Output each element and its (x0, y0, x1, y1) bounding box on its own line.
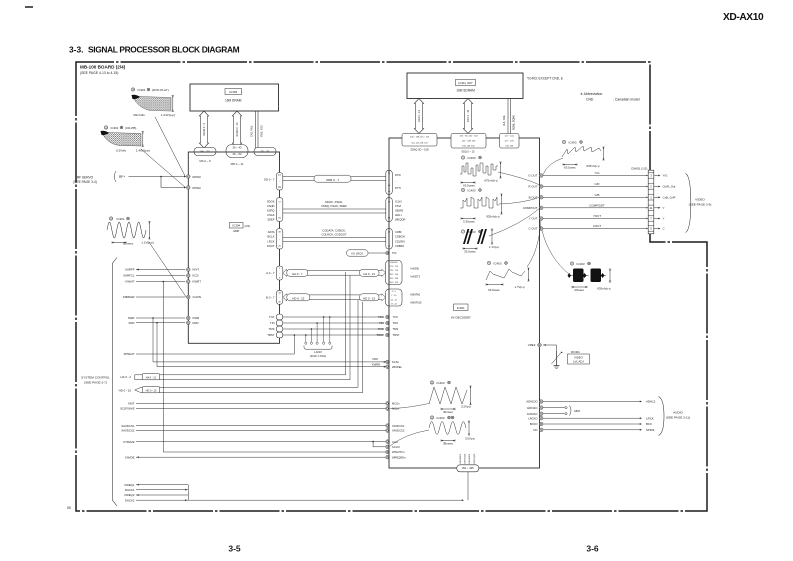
node XAVDCS2 av decoder (386, 429, 390, 433)
wire XARFF to KINT (136, 269, 185, 271)
svg-text:AUDIO: AUDIO (673, 411, 683, 415)
svg-text:XAVDE: XAVDE (125, 455, 135, 459)
svg-text:TRST: TRST (376, 333, 383, 337)
svg-text:IC303: IC303 (229, 90, 237, 94)
svg-text:B OUT: B OUT (529, 196, 538, 200)
svg-text:66 ~ 74: 66 ~ 74 (200, 149, 210, 153)
wire XARFC1 to KCS (136, 275, 185, 277)
svg-text:SDOK: SDOK (267, 199, 275, 203)
svg-text:XSHD: XSHD (267, 204, 275, 208)
svg-text:3-6: 3-6 (586, 544, 599, 554)
svg-text:CAS, RAS,: CAS, RAS, (251, 125, 254, 137)
svg-text:VIDEO: VIDEO (695, 198, 705, 202)
bus arrow RAMA 0-9 (199, 111, 208, 148)
svg-text:ASD 0 - 15: ASD 0 - 15 (467, 109, 470, 122)
svg-text:HD 0 - 15: HD 0 - 15 (292, 296, 304, 300)
svg-text:ADK34O: ADK34O (527, 406, 538, 410)
svg-text:XAVDCS2: XAVDCS2 (392, 429, 405, 433)
svg-text:HA 0 - 21: HA 0 - 21 (363, 272, 375, 276)
svg-text:KRD: KRD (193, 321, 199, 325)
svg-text:DQML, DQMU: DQML, DQMU (514, 115, 516, 130)
wire XTRAVE to CLKI (136, 441, 385, 443)
connector HD pin numbers av decoder (386, 289, 403, 306)
svg-text:SDEF: SDEF (267, 218, 275, 222)
waveform IC301 sine 30msec (109, 217, 112, 220)
node KINT (187, 268, 191, 272)
bus CODATA COBCK (283, 236, 386, 238)
waveform IC301 DVD-PLAY (131, 88, 134, 91)
svg-text:Y/G: Y/G (663, 174, 669, 178)
ABO brace (570, 406, 572, 416)
wire XAVDE from WREQENn (136, 456, 385, 458)
svg-text:SDAQ 0D ~ 15D: SDAQ 0D ~ 15D (410, 148, 429, 151)
wire Y/G to CN601 pin 3 (543, 175, 647, 177)
svg-text:CxB_Cr/R: CxB_Cr/R (663, 196, 676, 200)
svg-text:KCS: KCS (193, 274, 199, 278)
svg-text:IC403: IC403 (468, 188, 476, 192)
svg-text:SDQ 0 ~ 15: SDQ 0 ~ 15 (461, 150, 475, 153)
wire 391-395 down (467, 472, 469, 500)
svg-text:COUT: COUT (593, 224, 601, 228)
wire I/O LRCK to TDI pin (368, 252, 385, 254)
svg-text:TDI: TDI (392, 251, 397, 255)
svg-text:TRST: TRST (393, 333, 400, 337)
svg-text:RAMD 0 - 11: RAMD 0 - 11 (236, 122, 239, 137)
svg-text:YOUT: YOUT (593, 214, 601, 218)
svg-text:CDLRKI: CDLRKI (395, 239, 405, 243)
svg-text:145 ~ 148, 150: 145 ~ 148, 150 (462, 140, 476, 142)
node WREQENn av decoder (386, 455, 390, 459)
svg-text:SCLKI: SCLKI (392, 445, 400, 449)
svg-text:HA 0 - 7: HA 0 - 7 (292, 272, 303, 276)
waveform IC403 sawtooth top (562, 140, 565, 143)
svg-text:(SEE PAGE 3-9): (SEE PAGE 3-9) (689, 203, 712, 207)
IC401 label (454, 304, 469, 311)
connector SDRAM data pins (451, 134, 486, 149)
svg-text:(SEE PAGE 4-13 to 4-15): (SEE PAGE 4-13 to 4-15) (80, 71, 118, 75)
wire to RFW2 (160, 177, 162, 188)
svg-text:SD 0 - 7: SD 0 - 7 (264, 178, 275, 182)
svg-text:121 ~ 124,: 121 ~ 124, (504, 136, 514, 138)
svg-text:SDB 0 - 7: SDB 0 - 7 (326, 178, 339, 182)
svg-text:Y: Y (663, 217, 665, 221)
svg-text:CDBCKI: CDBCKI (395, 235, 405, 239)
svg-text:IC301: IC301 (111, 126, 119, 130)
svg-text:0.2Vdiv: 0.2Vdiv (116, 149, 127, 153)
svg-text:KWAIT: KWAIT (125, 280, 134, 284)
svg-text:∗ Abbreviation: ∗ Abbreviation (580, 92, 603, 96)
svg-text:SYSTEM CONTROL: SYSTEM CONTROL (81, 376, 110, 380)
svg-text:33.5usec: 33.5usec (464, 250, 476, 254)
wire XAVDCS2 to XAVDCS2 (136, 430, 385, 432)
pin oval DT0I-DT7I av decoder (386, 170, 393, 194)
svg-text:RV401: RV401 (571, 350, 580, 354)
svg-text:AMP: AMP (233, 229, 239, 233)
svg-text:(SEE PAGE 3-7): (SEE PAGE 3-7) (84, 381, 107, 385)
svg-text:DO: DO (533, 428, 537, 432)
svg-text:LRCKO: LRCKO (528, 416, 537, 420)
svg-text:-: - (396, 180, 397, 183)
svg-text:B 0 - 7: B 0 - 7 (266, 296, 275, 300)
svg-text:4.8usec: 4.8usec (574, 288, 585, 292)
svg-text:168-169: 168-169 (390, 262, 398, 264)
svg-text:DM RQ00: DM RQ00 (474, 453, 476, 464)
wire YOUT to CN601 pin 7 (543, 218, 647, 220)
svg-text:TMS: TMS (393, 327, 399, 331)
svg-text:S12FSAVE: S12FSAVE (120, 407, 134, 411)
IC304 system block (188, 152, 279, 343)
wire pair SDRAM control (507, 99, 509, 134)
svg-text:DREQ2: DREQ2 (125, 493, 135, 497)
svg-text:ABO: ABO (574, 409, 581, 413)
svg-text:KINT: KINT (193, 268, 200, 272)
svg-text:G OUT: G OUT (528, 174, 537, 178)
svg-text:30msec: 30msec (123, 242, 134, 246)
connector 36-43 46-53 (226, 145, 248, 158)
svg-text:XAVDCS2: XAVDCS2 (121, 429, 135, 433)
svg-text:BCKO: BCKO (530, 422, 538, 426)
svg-text:DT7I: DT7I (395, 186, 401, 190)
svg-text:HD 0 - 15: HD 0 - 15 (146, 389, 157, 392)
audio brace (659, 397, 665, 436)
node KCSn av decoder (386, 360, 390, 364)
wire triangle to MCLK (390, 404, 429, 409)
svg-text:TRST: TRST (267, 333, 275, 337)
svg-text:1.24V(p-p): 1.24V(p-p) (161, 113, 175, 117)
svg-text:XD-AX10: XD-AX10 (723, 12, 764, 23)
svg-text:MB-100 BOARD (2/4): MB-100 BOARD (2/4) (80, 65, 126, 70)
svg-text:LRCK: LRCK (646, 416, 654, 420)
svg-text:SIGNAL PROCESSOR BLOCK DIAG: SIGNAL PROCESSOR BLOCK DIAGRAM (88, 45, 240, 55)
svg-text:WREQENn: WREQENn (392, 455, 406, 459)
svg-text:05: 05 (67, 506, 71, 510)
svg-text:46 ~ 53: 46 ~ 53 (232, 152, 242, 156)
svg-text:WEQOR: WEQOR (395, 218, 406, 222)
svg-text:12 - 15: 12 - 15 (391, 299, 398, 301)
svg-text:IC401: IC401 (457, 306, 465, 310)
svg-text:RFW2: RFW2 (193, 186, 202, 190)
svg-text:XRO: XRO (372, 357, 378, 361)
svg-text:IC403: IC403 (468, 156, 476, 160)
svg-text:CLKIN: CLKIN (193, 295, 202, 299)
pin oval CD group av decoder (386, 229, 393, 250)
svg-text:TCK: TCK (378, 315, 384, 319)
video brace (686, 174, 691, 233)
svg-text:XWR: XWR (128, 316, 135, 320)
svg-text:HD 0 - 15: HD 0 - 15 (363, 296, 375, 300)
wire COMPOSIT to CN601 pin 11 (543, 207, 647, 209)
wire KWAIT to KWRT (136, 281, 185, 283)
svg-text:XWE, XOE: XWE, XOE (261, 125, 264, 137)
svg-text:DOUT: DOUT (267, 244, 275, 248)
wire sine lower to SCLKI (390, 430, 429, 446)
connector 29-31 (254, 148, 276, 156)
ground (556, 363, 558, 366)
bus SDB 0-7 (283, 176, 386, 178)
pin oval DATA group left block (276, 229, 283, 250)
connector SDRAM addr pins (402, 134, 437, 147)
svg-text:156, 153, 156: 156, 153, 156 (462, 145, 475, 147)
svg-text:XSRQ: XSRQ (267, 209, 275, 213)
svg-text:MA 0 ~ 9: MA 0 ~ 9 (199, 159, 211, 163)
svg-text:TDO: TDO (393, 321, 399, 325)
connector HA pin numbers av decoder (386, 261, 403, 285)
svg-text:1.1Vp-p: 1.1Vp-p (489, 245, 500, 249)
svg-text:DACK2: DACK2 (125, 498, 135, 502)
wire C/B to CN601 pin 1 (543, 196, 647, 198)
svg-text:1.7Vp-p: 1.7Vp-p (514, 285, 525, 289)
svg-text:AOK04O: AOK04O (527, 412, 538, 416)
pin oval A0-7 left block (276, 266, 283, 280)
svg-text:63.5usec: 63.5usec (564, 166, 576, 170)
svg-text:XPWAIT: XPWAIT (124, 352, 135, 356)
wire waveform3 to CLKIN (149, 242, 186, 297)
svg-text:TMS: TMS (378, 327, 384, 331)
svg-text:1.1V(p-p): 1.1V(p-p) (141, 240, 154, 244)
I/O LRCK box (347, 250, 369, 256)
wire DACK2 to AV connector (188, 499, 462, 501)
svg-text:WWAITCn: WWAITCn (392, 450, 405, 454)
svg-text:CLKI: CLKI (392, 440, 398, 444)
wire TMS JTAG (276, 326, 283, 332)
IC401 AV DECODER block (389, 138, 540, 468)
node XAVDCS1 av decoder (386, 424, 390, 428)
svg-text:16M SDRAM: 16M SDRAM (456, 89, 475, 93)
svg-text:VREF: VREF (528, 343, 536, 347)
waveform IC403 staircase (461, 188, 464, 191)
svg-text:CDBI: CDBI (395, 230, 402, 234)
LANO J-TAG stubs (305, 334, 307, 336)
wire pair RAS/CAS control (255, 111, 257, 148)
node KCS (187, 274, 191, 278)
svg-text:XRD: XRD (128, 321, 134, 325)
svg-text:ADH12: ADH12 (646, 400, 656, 404)
svg-text:AV DECODER: AV DECODER (451, 315, 471, 319)
svg-text:(FOR J-TAG): (FOR J-TAG) (310, 354, 326, 358)
svg-text:IC403: IC403 (569, 140, 577, 144)
svg-text:TCK: TCK (269, 315, 275, 319)
wire XINT to MCSn (136, 403, 385, 405)
node KWR (187, 316, 191, 320)
svg-text:IC403: IC403 (437, 381, 445, 385)
svg-text:TDI: TDI (270, 321, 275, 325)
svg-text:7 - 10: 7 - 10 (391, 295, 397, 297)
svg-text:R OUT: R OUT (529, 185, 538, 189)
pin oval ICLKI group av decoder (386, 198, 393, 222)
wire RV401 to VREF (543, 344, 557, 346)
svg-text:KCSn: KCSn (392, 360, 400, 364)
node RFW0 (187, 175, 191, 179)
svg-text:33BRAW: 33BRAW (123, 295, 135, 299)
pin oval B0-7 left block (276, 290, 283, 304)
node KRD (187, 321, 191, 325)
svg-text:RFW0: RFW0 (193, 175, 202, 179)
wire staircase to B OUT (499, 197, 541, 204)
svg-text:COMPOUT: COMPOUT (523, 206, 538, 210)
wire dark bursts to COMPOUT (489, 207, 541, 236)
wire XAVDCS1 to XAVDCS1 (136, 425, 385, 427)
svg-text:191 - 194: 191 - 194 (390, 282, 399, 284)
svg-text:935mVp-p: 935mVp-p (486, 215, 500, 219)
node MCLK av decoder (386, 407, 390, 411)
wire RF+ to RFW0 (129, 176, 186, 178)
svg-text:171 - 174: 171 - 174 (390, 266, 399, 268)
svg-text:CND: CND (586, 98, 594, 102)
wire waveform2 to RFW2 (141, 149, 185, 187)
wire XRD to KRD (136, 322, 185, 324)
svg-text:TCK: TCK (393, 315, 399, 319)
bus SDOK XSHD XSRQ KSAK SDEF (283, 208, 386, 210)
svg-text:635mVp-p: 635mVp-p (597, 287, 611, 291)
connector SDRAM ctrl pins (500, 134, 520, 149)
svg-text:187 - 194: 187 - 194 (390, 274, 399, 276)
svg-text:IC304: IC304 (232, 224, 240, 228)
svg-text:SEMI3: SEMI3 (395, 209, 404, 213)
svg-text:3.2Vp-p: 3.2Vp-p (461, 405, 472, 409)
svg-text:127 ~ 129,: 127 ~ 129, (504, 140, 514, 142)
svg-text:: Canadian model: : Canadian model (613, 98, 640, 102)
svg-text:Y: Y (663, 206, 665, 210)
svg-text:HA 0 - 2: HA 0 - 2 (121, 375, 132, 379)
wire KWAIT branch down to WWAITCn (162, 282, 164, 453)
system control bracket (112, 258, 117, 507)
svg-text:KSVI: KSVI (395, 204, 401, 208)
svg-text:MD 0 ~ 11: MD 0 ~ 11 (231, 162, 244, 166)
wire waveform1 to RFW0 (155, 117, 185, 176)
svg-text:TDI: TDI (379, 321, 384, 325)
svg-text:KBATA15: KBATA15 (411, 301, 423, 305)
IC404 403 16M SDRAM box (407, 73, 523, 99)
board outline MB-100 (76, 62, 707, 511)
svg-text:MCLK: MCLK (392, 407, 400, 411)
connector CN601 body (648, 170, 654, 234)
svg-text:HA20T3: HA20T3 (411, 275, 421, 279)
wire color burst to C OUT (542, 231, 570, 276)
waveform IC403 dark bursts (461, 230, 464, 233)
svg-text:Cb/R_Out: Cb/R_Out (663, 185, 676, 189)
svg-text:-: - (412, 272, 413, 275)
waveform IC403 sawtooth lower (487, 261, 490, 264)
wire COUT to CN601 pin 5 (543, 228, 647, 230)
bus arrow ASD 0-15 (463, 99, 472, 134)
svg-text:40msec: 40msec (443, 410, 454, 414)
svg-text:135 ~ 138, 110 ~ 113: 135 ~ 138, 110 ~ 113 (410, 136, 430, 138)
svg-text:COLRCK, CODOUT: COLRCK, CODOUT (321, 233, 347, 237)
svg-text:C/B: C/B (595, 193, 600, 197)
svg-text:-: - (412, 298, 413, 301)
svg-text:132, 133: 132, 133 (505, 145, 514, 147)
svg-text:HD 0 - 15: HD 0 - 15 (119, 389, 132, 393)
svg-text:XARFC1: XARFC1 (123, 274, 135, 278)
IC304 label (230, 223, 244, 229)
svg-text:IC403: IC403 (577, 262, 585, 266)
svg-text:63.5usec: 63.5usec (463, 184, 475, 188)
svg-text:5.35usec: 5.35usec (463, 220, 475, 224)
wire XRD wrap to WFWEn (156, 323, 158, 367)
svg-text:C OUT: C OUT (529, 227, 538, 231)
page corner mark (25, 6, 33, 8)
svg-text:126 ~ 38, 140 ~ 143: 126 ~ 38, 140 ~ 143 (460, 136, 479, 138)
waveform IC403 triangle (430, 381, 433, 384)
pin oval SD0-7 left block (276, 173, 283, 191)
svg-text:3-5: 3-5 (228, 544, 241, 554)
junction dot KWAIT branch (163, 281, 165, 283)
svg-text:Y OUT: Y OUT (529, 217, 538, 221)
svg-text:(SEE PAGE 3-11): (SEE PAGE 3-11) (666, 416, 690, 420)
wire 33BRAW to CLKIN (136, 296, 185, 298)
svg-text:XAVDCS1: XAVDCS1 (392, 424, 405, 428)
svg-text:KWR: KWR (193, 316, 200, 320)
svg-text:17 - 20: 17 - 20 (391, 304, 398, 306)
waveform IC403 sine lower (430, 416, 433, 419)
svg-text:16M DRAM: 16M DRAM (225, 99, 242, 103)
svg-text:MCSn: MCSn (392, 402, 400, 406)
node MCSn av decoder (386, 402, 390, 406)
connector 66-74 (194, 148, 216, 156)
node WWAITCn av decoder (386, 450, 390, 454)
svg-text:KSAK: KSAK (267, 213, 274, 217)
svg-text:XSRQ, KSAK, SDEF: XSRQ, KSAK, SDEF (321, 204, 347, 208)
pin oval SDOK group left block (276, 198, 283, 222)
svg-text:*IC403: EXCEPT CND, E: *IC403: EXCEPT CND, E (527, 77, 563, 81)
svg-text:DACK1: DACK1 (125, 488, 135, 492)
bus HA0-7 / HA0-21 hollow arrow (283, 269, 386, 276)
svg-text:HA20B: HA20B (411, 267, 419, 271)
junction dot XRD branch (156, 322, 158, 324)
svg-text:DT0I: DT0I (395, 173, 401, 177)
svg-text:TMS: TMS (269, 327, 275, 331)
svg-text:A 0 - 7: A 0 - 7 (266, 271, 275, 275)
svg-text:36 ~ 43: 36 ~ 43 (232, 146, 242, 150)
svg-text:ADH1DO: ADH1DO (526, 400, 537, 404)
svg-text:115, 116, 118, 120: 115, 116, 118, 120 (411, 143, 428, 145)
junction dot XWR branch (152, 317, 154, 319)
svg-text:IC403: IC403 (437, 416, 445, 420)
svg-text:XAVDCS1: XAVDCS1 (121, 424, 135, 428)
svg-text:391 ~ 395: 391 ~ 395 (462, 466, 474, 470)
svg-text:XWRN: XWRN (372, 362, 380, 366)
node KWRT (187, 280, 191, 284)
svg-text:678mVp-p: 678mVp-p (586, 164, 600, 168)
svg-text:KWRT: KWRT (193, 280, 202, 284)
svg-text:C/R: C/R (595, 182, 600, 186)
svg-text:29 ~ 31: 29 ~ 31 (260, 149, 270, 153)
svg-text:CLK, CKE,: CLK, CKE, (504, 115, 506, 126)
wire burst to R OUT (498, 172, 541, 186)
wire XWR to KWR (136, 317, 185, 319)
variable resistor RV401 (556, 351, 558, 363)
svg-text:DM RQ10: DM RQ10 (465, 453, 467, 464)
svg-text:RF SERVO: RF SERVO (77, 176, 94, 180)
svg-text:XINT: XINT (128, 402, 135, 406)
svg-text:KBATA0: KBATA0 (411, 293, 421, 297)
wire XWR wrap to KCSn (152, 318, 154, 362)
svg-text:195 - 198: 195 - 198 (390, 278, 399, 280)
svg-text:DM ACK0: DM ACK0 (468, 453, 471, 463)
svg-text:RF+: RF+ (119, 175, 125, 179)
svg-text:IC301: IC301 (117, 217, 125, 221)
svg-text:XTRAVE: XTRAVE (123, 440, 134, 444)
svg-text:3.5Vp-p: 3.5Vp-p (465, 437, 476, 441)
node RFW2 (187, 186, 191, 190)
wire TCK JTAG (276, 314, 283, 320)
svg-text:175 - 176: 175 - 176 (390, 270, 399, 272)
svg-text:(CD-PB): (CD-PB) (125, 126, 136, 130)
svg-text:675mVp-p: 675mVp-p (484, 179, 498, 183)
bus arrow ASA 0-12 (414, 99, 423, 134)
waveform IC403 color burst pair (570, 262, 573, 265)
svg-text:Y/G: Y/G (595, 171, 601, 175)
